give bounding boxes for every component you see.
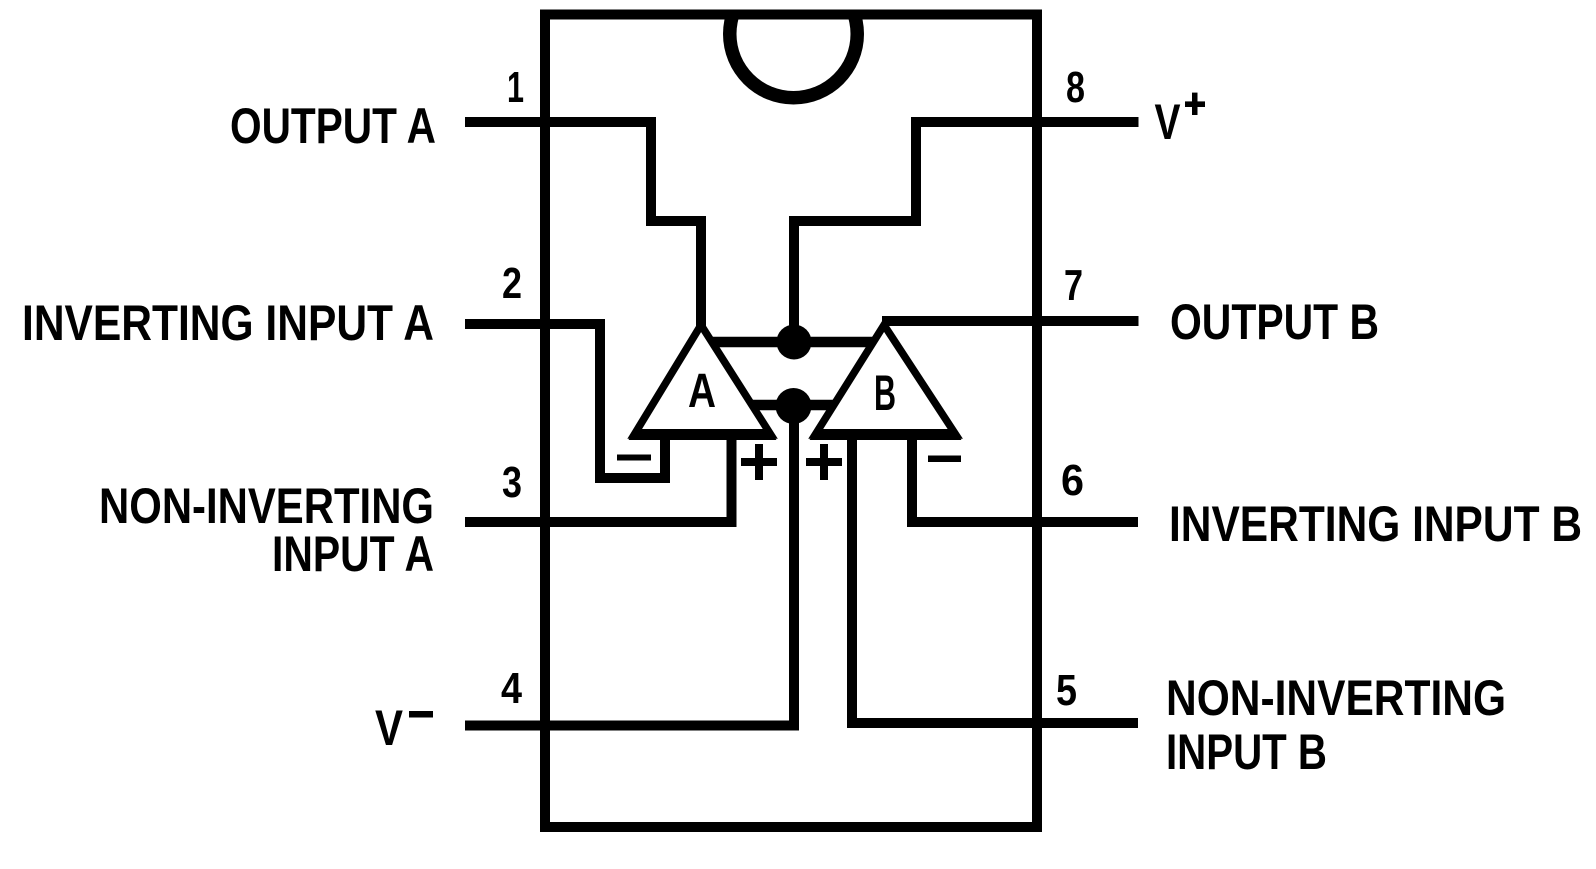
op-amp A non-inverting input plus sign: [755, 444, 763, 480]
svg-text:6: 6: [1061, 456, 1084, 505]
op-amp A triangle: [634, 325, 771, 435]
wire pin 6 INVERTING INPUT B route from op-amp B inverting input: [912, 430, 1138, 522]
svg-text:INPUT A: INPUT A: [272, 526, 434, 582]
power label V- superscript minus: [409, 711, 433, 718]
wire pin 3 NON-INVERTING INPUT A lead and route to op-amp A non-inverting input: [465, 430, 732, 522]
wire pin 1 OUTPUT A lead and inner route to op-amp A output: [465, 122, 701, 336]
wire pin 7 OUTPUT B lead from op-amp B output: [882, 316, 1139, 326]
node junction dot V-: [776, 388, 812, 424]
svg-text:INPUT B: INPUT B: [1166, 724, 1327, 780]
svg-text:A: A: [688, 365, 716, 418]
svg-text:NON-INVERTING: NON-INVERTING: [1166, 670, 1506, 726]
wire V+ rail between op-amp A and op-amp B: [707, 337, 874, 348]
op-amp B triangle: [815, 325, 956, 435]
op-amp B triangle base bar: [810, 429, 962, 440]
pin-1 index notch: [723, 0, 864, 105]
svg-text:8: 8: [1066, 63, 1085, 112]
wire V- rail between op-amp A and op-amp B: [748, 400, 840, 411]
IC package outline U1 (DIP-8 top view): [545, 15, 1037, 828]
svg-text:4: 4: [501, 664, 522, 713]
svg-text:7: 7: [1064, 261, 1083, 310]
node junction dot V+: [777, 325, 812, 360]
svg-text:INVERTING INPUT B: INVERTING INPUT B: [1169, 496, 1582, 552]
svg-text:OUTPUT A: OUTPUT A: [230, 98, 436, 154]
wire pin 5 NON-INVERTING INPUT B route from op-amp B non-inverting input: [852, 430, 1138, 723]
svg-text:5: 5: [1056, 666, 1077, 715]
svg-text:V: V: [375, 700, 404, 756]
svg-text:3: 3: [502, 458, 522, 507]
svg-text:OUTPUT B: OUTPUT B: [1170, 294, 1379, 350]
op-amp B inverting input minus sign: [928, 456, 961, 463]
svg-text:B: B: [874, 365, 896, 421]
op-amp A triangle base bar: [629, 429, 777, 440]
svg-text:2: 2: [502, 259, 522, 308]
svg-text:INVERTING INPUT A: INVERTING INPUT A: [22, 295, 434, 351]
wire pin 2 INVERTING INPUT A lead and route to op-amp A inverting input: [465, 324, 665, 478]
svg-text:V: V: [1155, 94, 1181, 150]
power label V+ superscript plus: [1185, 101, 1205, 107]
wire pin 4 V- lead and inner route up to V- junction: [465, 406, 794, 726]
wire pin 8 V+ lead and inner route to V+ junction: [794, 122, 1139, 342]
op-amp A inverting input minus sign: [617, 455, 651, 461]
op-amp B non-inverting input plus sign: [820, 444, 828, 480]
svg-text:1: 1: [507, 63, 524, 112]
